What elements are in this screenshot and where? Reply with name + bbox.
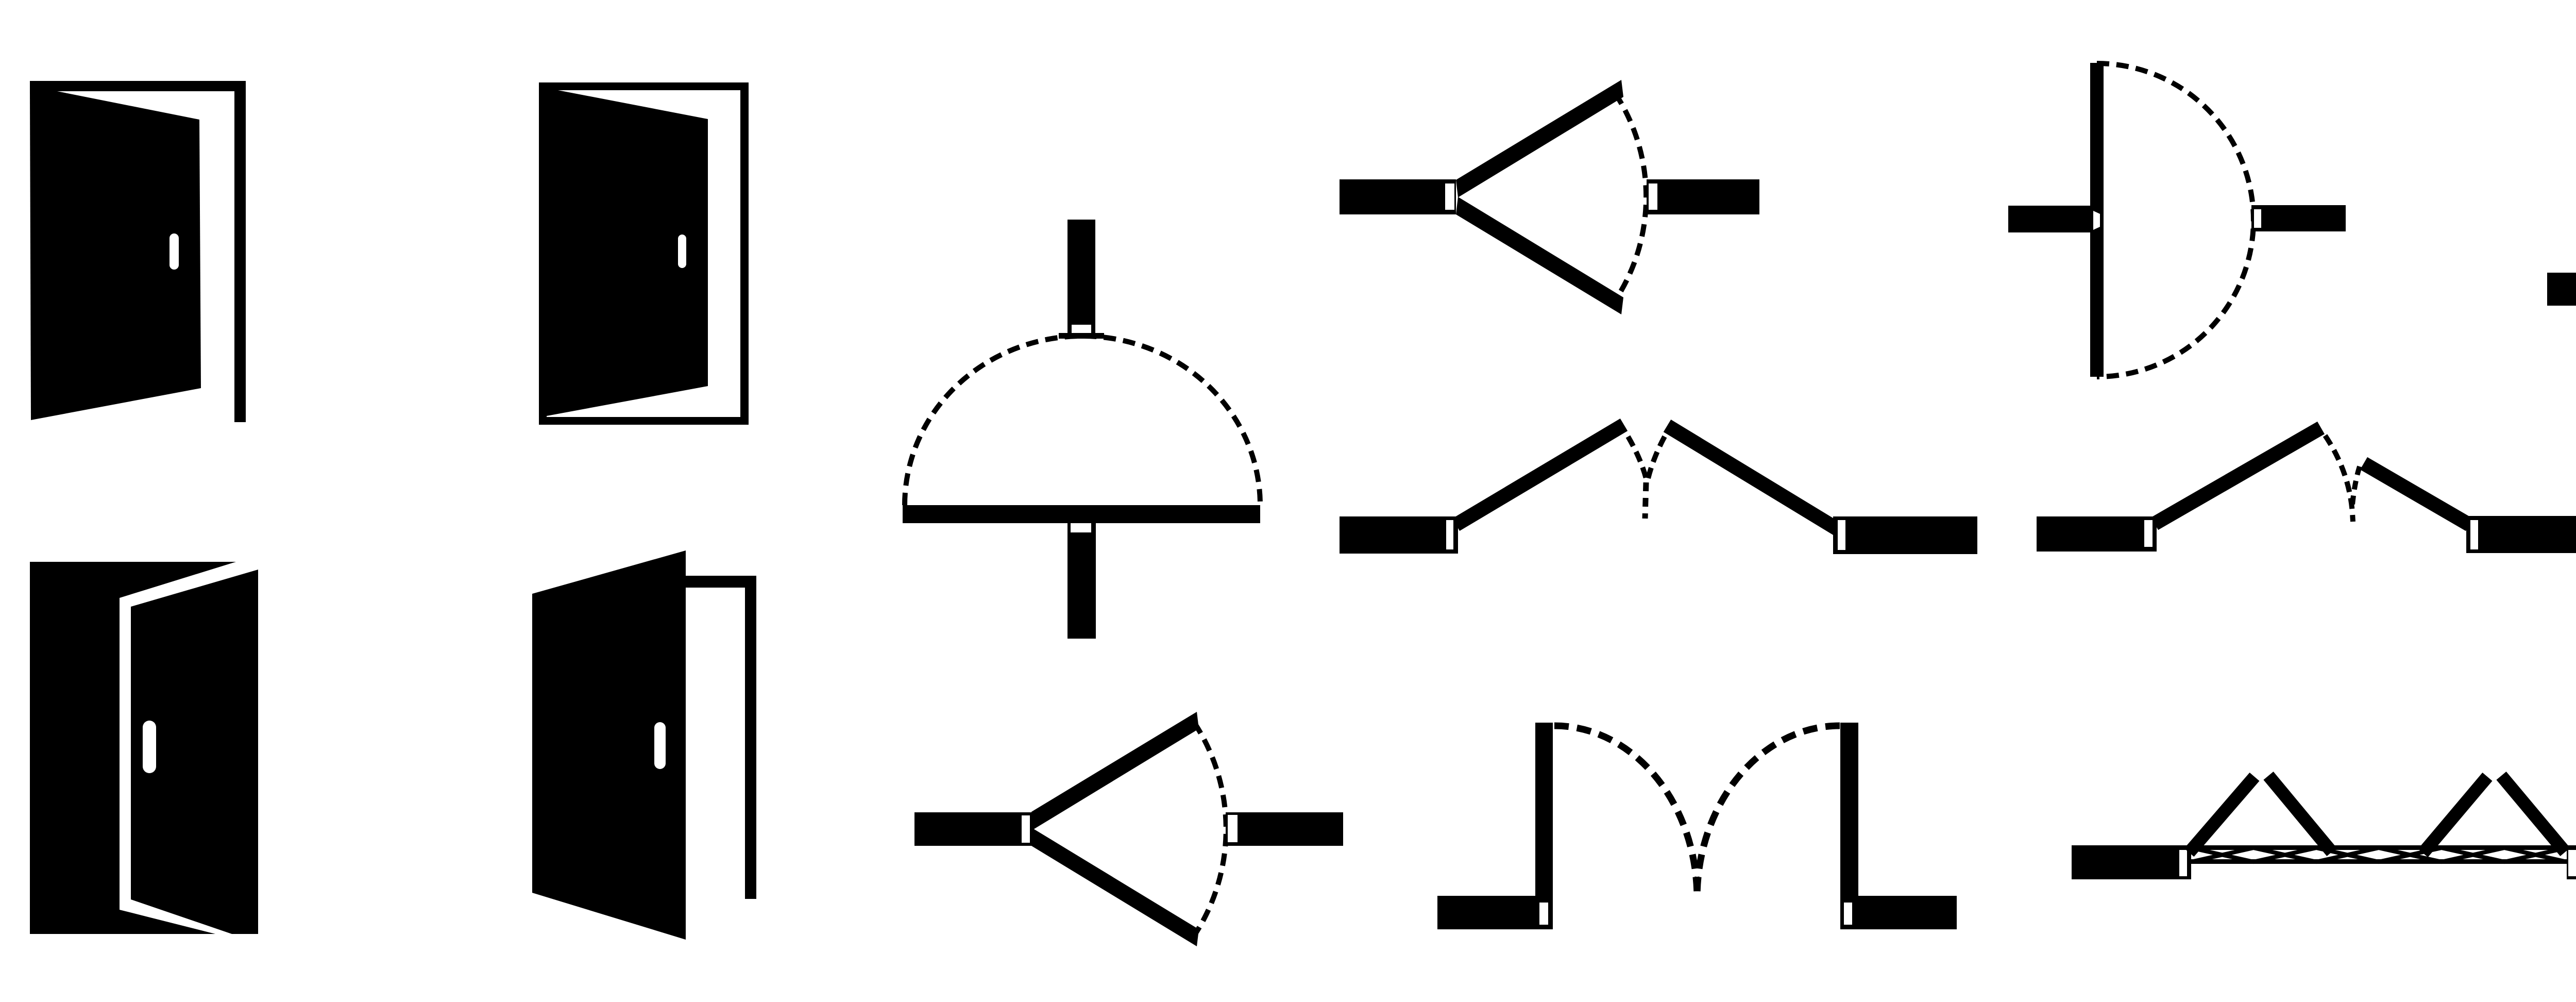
P1 door leaf open 180 <box>903 505 1260 523</box>
D2 frame top bar <box>539 82 749 90</box>
P6 left wall notch <box>2144 520 2153 547</box>
plan symbol P1: 180-degree swing door, col3 top <box>903 220 1260 639</box>
P10 fold panel 2b <box>2501 776 2565 852</box>
D3 black panel <box>30 562 258 934</box>
D4 door leaf <box>532 550 686 940</box>
P5 right leaf <box>1667 426 1840 531</box>
P9 left leaf open <box>1535 723 1553 929</box>
D1 frame right bar <box>234 81 246 422</box>
P5 right swing arc dashed <box>1648 437 1665 480</box>
P8 right wall <box>1226 812 1343 846</box>
P2 left wall notch <box>1445 183 1454 210</box>
P6 right swing arc dashed <box>2352 466 2360 510</box>
P5 center meeting dashed line <box>1645 482 1646 519</box>
P5 left leaf <box>1456 425 1624 525</box>
P10 track bottom line <box>2191 859 2567 864</box>
P10 lattice zigzag lower <box>2191 848 2567 862</box>
D1 door leaf <box>30 91 201 420</box>
P10 track top line <box>2191 845 2567 850</box>
P3 hinge notch wedge <box>2093 211 2100 230</box>
P9 right wall <box>1840 896 1957 929</box>
P10 left wall notch <box>2179 850 2187 876</box>
D3 white frame outline <box>120 562 258 934</box>
P2 right wall <box>1647 179 1759 214</box>
P10 left wall <box>2072 845 2191 879</box>
D2 door leaf <box>547 90 708 416</box>
P6 left swing arc dashed <box>2325 436 2353 522</box>
P6 left wall <box>2037 516 2157 552</box>
door icon D1: perspective open door, top-left <box>30 81 246 422</box>
P5 left wall <box>1340 516 1458 554</box>
plan symbol P5: double door both leaves swinging, middle col4 <box>1340 425 1977 554</box>
P1 arc apex solid segment <box>1059 333 1104 339</box>
P1 top jamb hinge notch <box>1072 325 1091 333</box>
plan symbol P9: double door fully open, bottom col4 <box>1437 723 1957 929</box>
P9 left hinge notch <box>1539 903 1548 925</box>
P3 left wall <box>2008 206 2097 232</box>
P5 right wall notch <box>1838 520 1845 550</box>
door icon D2: open door with full frame, top second <box>539 82 749 425</box>
door icon D3: inverse door on black panel, bottom-left <box>30 562 258 934</box>
P1 top jamb wall <box>1067 220 1095 333</box>
plan symbol P2: double-acting door opening left, col4 top <box>1340 80 1759 314</box>
P10 right wall <box>2567 845 2576 879</box>
P8 swing arc dashed <box>1194 723 1226 936</box>
P6 left leaf <box>2155 428 2321 524</box>
P10 fold panel 1b <box>2268 776 2332 852</box>
P10 right wall notch <box>2568 850 2576 876</box>
P9 right leaf open <box>1840 723 1858 929</box>
P9 right hinge notch <box>1844 903 1852 925</box>
P8 upper leaf <box>1031 712 1199 829</box>
P3 door leaf closed <box>2090 63 2104 377</box>
P2 left wall <box>1340 179 1456 214</box>
P8 right wall notch <box>1228 815 1238 842</box>
plan symbol P8: double-acting door opening left, bottom col3 <box>914 712 1343 946</box>
P6 right wall notch <box>2470 520 2478 549</box>
D2 frame right bar <box>740 82 749 425</box>
D2 frame bottom bar <box>539 417 749 425</box>
P2 lower leaf <box>1456 197 1623 314</box>
P5 left swing arc dashed <box>1628 437 1647 480</box>
P10 fold panel 1a <box>2189 777 2255 853</box>
P2 right wall notch <box>1649 183 1657 210</box>
D3 handle slot <box>143 721 156 773</box>
D4 frame right bar <box>745 576 756 899</box>
D1 handle slot <box>170 233 179 270</box>
P8 lower leaf <box>1031 829 1199 946</box>
plan symbol P3: 180-degree swing door vertical, col5 top <box>2008 63 2346 377</box>
P8 left wall notch <box>1022 815 1030 843</box>
plan symbol P4: unequal double door open, col6 top <box>2547 90 2576 306</box>
D4 handle slot <box>654 722 666 769</box>
P10 lattice zigzag upper <box>2191 848 2567 862</box>
P5 right wall <box>1833 516 1977 554</box>
P6 right leaf <box>2364 463 2469 525</box>
P3 right wall <box>2251 205 2346 231</box>
P4 left wall <box>2547 273 2576 306</box>
D2 handle slot <box>678 235 686 268</box>
P3 right wall notch <box>2254 209 2261 228</box>
plan symbol P6: double door one leaf part open, middle col5 <box>2037 428 2576 553</box>
D4 frame top bar <box>686 576 756 588</box>
P10 fold panel 2a <box>2423 777 2487 853</box>
door icon D4: perspective open door hinged right, bottom second <box>532 550 756 940</box>
P9 right swing arc dashed <box>1697 726 1840 898</box>
plan symbol P10: bi-fold double door, bottom col5 <box>2072 776 2576 879</box>
P1 bottom jamb wall <box>1067 523 1096 639</box>
P1 bottom jamb hinge notch <box>1071 523 1091 532</box>
P2 upper leaf <box>1456 80 1623 197</box>
P3 swing arc dashed <box>2097 63 2253 377</box>
P1 swing arc dashed <box>905 336 1260 505</box>
P5 left wall notch <box>1446 520 1453 549</box>
P9 left swing arc dashed <box>1554 726 1697 898</box>
P9 left wall <box>1437 896 1553 929</box>
P6 right wall <box>2466 516 2576 553</box>
P8 left wall <box>914 812 1033 846</box>
D1 frame top bar <box>30 81 246 91</box>
D2 frame left bar <box>539 82 547 425</box>
P2 swing arc dashed <box>1615 93 1646 300</box>
